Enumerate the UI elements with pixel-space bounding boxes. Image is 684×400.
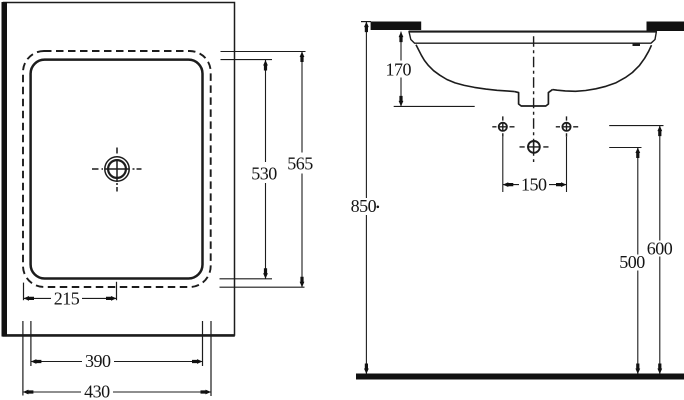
label 565 background [285,153,316,174]
extension line 150 right [566,137,568,192]
drain centerline vertical [116,148,118,192]
faucet hole right horizontal centerline [556,126,578,128]
faucet hole left [499,123,507,131]
dimension line 390 [31,361,203,363]
extension tick left for 215 [23,283,25,301]
floor line [356,374,684,380]
svg-text:430: 430 [84,382,110,400]
extension tick 850 top [361,21,371,23]
basin outer rim dashed (plan view) [23,51,211,287]
wall bar right (elevation) [647,22,684,32]
dimension line 150 [503,184,567,186]
drain inner circle [108,160,126,178]
label 850 background [348,198,379,215]
svg-text:150: 150 [521,174,547,194]
svg-text:850: 850 [351,196,377,216]
dimension 430 arrow right [201,390,212,395]
dimension 215 arrow right [106,296,117,301]
dimension 600 arrow down [657,364,662,375]
label 430 background [81,384,113,400]
label 215 background [51,291,82,307]
dimension line 215 [24,297,117,299]
dimension 600 arrow up [657,126,662,137]
dimension 170 arrow up [399,32,404,42]
dimension line 565 [301,52,303,288]
bowl curve right (elevation) [553,45,652,91]
drain centerline horizontal [92,168,142,170]
faucet hole right [562,123,570,131]
dimension line 170 [400,32,402,107]
dimension 530 arrow down [263,268,268,279]
extension line 150 left [502,137,504,192]
faucet hole left vertical centerline [502,116,504,136]
extension line from dashed rim top [221,51,306,53]
dimension 390 arrow left [31,359,42,364]
extension line from solid bowl bottom [220,278,273,280]
dimension 530 arrow up [263,60,268,71]
label 390 background [82,354,114,370]
basin rim profile (elevation) [409,32,656,44]
dimension line 600 [659,126,661,374]
faucet hole left horizontal centerline [492,126,514,128]
drain outer circle [105,157,129,181]
svg-text:390: 390 [85,351,111,371]
label 850 dot [377,206,380,209]
countertop outline (plan view) [4,3,235,336]
dimension 150 arrow right [556,182,567,187]
extension line 500 at center hole height [609,147,641,149]
svg-text:500: 500 [619,252,645,272]
extension line for 390 right [202,321,204,366]
extension line for 430 left [22,321,24,396]
overflow mark under rim [633,43,641,46]
svg-text:530: 530 [251,163,277,183]
extension line from dashed rim bottom [220,286,305,288]
wall bar left (elevation) [371,22,422,31]
countertop bottom edge [3,334,235,336]
extension line 600 at faucet height [609,125,663,127]
center hole horizontal centerline [520,146,549,148]
dimension line 500 [637,148,639,375]
bowl curve left (elevation) [416,45,515,92]
dimension 170 arrow down [399,96,404,107]
center hole vertical solid segment [533,141,535,154]
extension tick right for 215 at drain center [116,282,118,300]
extension line for 430 right [210,321,212,396]
dimension 500 arrow up [635,148,640,159]
label 170 background [385,61,413,78]
dimension 850 arrow down [364,364,369,375]
label 530 background [249,162,280,183]
dimension line 850 [365,22,367,374]
dimension line 430 [23,391,211,393]
dimension 565 arrow up [300,52,305,63]
svg-text:215: 215 [54,288,80,308]
label 600 background [645,241,675,257]
dimension 850 arrow up [364,22,369,32]
dimension line 530 [265,60,267,279]
drain outlet (elevation) [515,90,553,106]
svg-text:565: 565 [287,154,313,174]
basin inner bowl solid rounded rect (plan view) [31,60,203,279]
faucet hole right vertical centerline [566,116,568,136]
label 150 background [519,177,549,193]
svg-text:600: 600 [647,238,673,258]
extension line from solid bowl top [221,59,273,61]
dimension 390 arrow right [192,359,203,364]
dimension 565 arrow down [300,277,305,288]
countertop left thick edge [2,2,8,337]
dimension 215 arrow left [24,296,35,301]
main centerline (elevation) [533,36,535,162]
label 500 background [617,255,647,271]
dimension 150 arrow left [503,182,514,187]
dimension 500 arrow down [635,364,640,375]
svg-text:170: 170 [385,59,411,79]
dimension 430 arrow left [23,390,34,395]
basin rim top line [409,31,657,33]
extension line for 390 left [30,321,32,366]
extension line 170 bottom [394,105,475,107]
center hole [528,141,540,153]
